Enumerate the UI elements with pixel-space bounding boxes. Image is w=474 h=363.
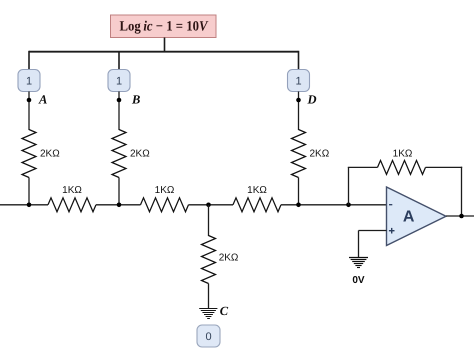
wire: bus drop to source box B [118,52,120,70]
svg-text:1KΩ: 1KΩ [62,185,82,196]
junction at center tap [206,203,211,208]
node D [296,92,316,106]
resistor 2K ohm (branch A) [22,130,60,178]
svg-text:2KΩ: 2KΩ [130,149,150,160]
junction at B on main rail [117,203,122,208]
svg-text:1: 1 [26,75,32,87]
source box 1 (branch D) [288,70,310,92]
junction at output node [459,214,464,219]
wire: main rail B segment [96,204,141,206]
wire: stem from label box down to top bus [164,38,166,53]
svg-text:1KΩ: 1KΩ [393,148,413,159]
ground symbol at node C [199,309,217,319]
svg-text:D: D [307,92,317,106]
resistor 2K ohm (branch B) [112,130,150,178]
source box 1 (branch B) [108,70,130,92]
resistor 2K ohm (branch D) [292,130,330,178]
wire: box D to resistor [298,92,300,131]
node B [117,92,141,106]
svg-text:A: A [38,92,47,106]
resistor 1K ohm (feedback) [378,148,426,174]
svg-text:1: 1 [116,75,122,87]
net label box: Log ic - 1 = 10V [111,15,217,38]
wire: center tap down to resistor [208,205,210,236]
svg-text:B: B [131,92,140,106]
wire: feedback tap up [348,167,350,204]
wire: box A to resistor [28,92,30,131]
wire: non-inverting input [359,230,387,232]
wire: bus drop to source box A [28,51,30,70]
svg-text:C: C [220,304,229,318]
resistor 1K ohm (B-C) [141,185,189,212]
resistor 1K ohm (C-D) [233,185,281,212]
junction at feedback tap [346,203,351,208]
svg-text:0: 0 [205,331,211,343]
ground symbol 0V [349,258,368,268]
wire: feedback top left [348,166,378,168]
wire: main rail center segment [189,204,234,206]
junction at D on main rail [296,203,301,208]
svg-text:2KΩ: 2KΩ [310,149,330,160]
wire: main rail left segment [0,204,48,206]
node A [27,92,48,106]
wire: resistor to ground C [208,284,210,309]
wire: down to 0V ground [358,231,360,258]
reference box 0 (node C) [197,325,220,347]
wire: top bus [29,51,299,53]
svg-text:0V: 0V [352,275,365,286]
wire: bus drop to source box D [298,51,300,70]
wire: feedback down to output [461,167,463,216]
svg-text:Log ic − 1 = 10V: Log ic − 1 = 10V [120,18,209,34]
resistor 1K ohm (A-B) [48,185,96,212]
svg-text:1: 1 [295,75,301,87]
op-amp A [387,187,447,246]
wire: resistor B to main rail [118,178,120,205]
svg-text:A: A [403,209,415,226]
wire: op-amp output [446,215,474,217]
wire: box B to resistor [118,92,120,131]
op-amp inverting input mark [389,204,392,206]
wire: feedback top right [426,166,463,168]
source box 1 (branch A) [18,70,40,92]
resistor 2K ohm (center branch to C) [202,236,239,284]
op-amp non-inverting input mark [389,230,395,232]
svg-text:2KΩ: 2KΩ [40,149,60,160]
wire: resistor D to main rail [298,178,300,205]
wire: resistor A to main rail [28,178,30,205]
wire: main rail right segment to op-amp [281,204,387,206]
svg-text:2KΩ: 2KΩ [219,253,239,264]
junction at A on main rail [27,203,32,208]
svg-text:1KΩ: 1KΩ [247,185,267,196]
svg-text:1KΩ: 1KΩ [155,185,175,196]
